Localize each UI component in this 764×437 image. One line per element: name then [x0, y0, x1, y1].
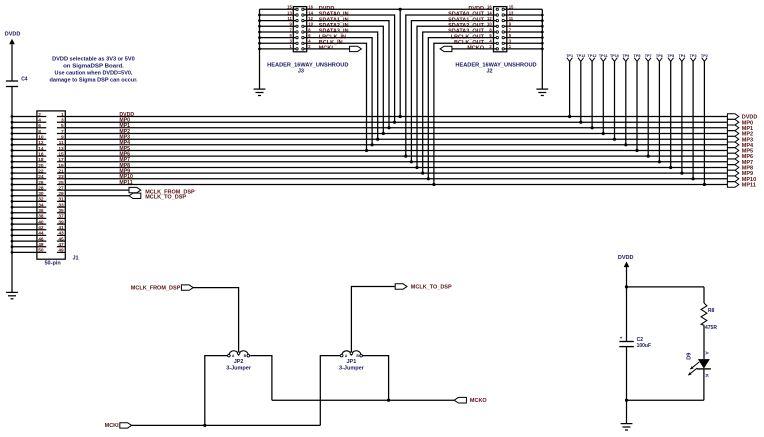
svg-text:TP11: TP11: [599, 54, 608, 58]
svg-text:TP10: TP10: [610, 54, 619, 58]
svg-text:32: 32: [38, 197, 44, 203]
svg-text:C4: C4: [21, 77, 28, 83]
svg-text:TP12: TP12: [588, 54, 597, 58]
svg-text:TP9: TP9: [622, 54, 629, 58]
svg-text:TP6: TP6: [656, 54, 663, 58]
svg-text:11: 11: [509, 16, 514, 21]
svg-text:on SigmaDSP Board.: on SigmaDSP Board.: [63, 64, 124, 70]
svg-text:4: 4: [38, 118, 41, 124]
svg-text:J1: J1: [73, 256, 79, 262]
svg-text:45: 45: [58, 236, 64, 242]
svg-text:28: 28: [38, 185, 44, 191]
svg-text:37: 37: [58, 214, 64, 220]
svg-text:12: 12: [38, 140, 44, 146]
svg-text:13: 13: [287, 10, 292, 15]
svg-text:J2: J2: [486, 68, 492, 74]
svg-text:15: 15: [509, 5, 514, 10]
svg-text:14: 14: [38, 146, 44, 152]
svg-text:TP4: TP4: [678, 54, 686, 58]
svg-text:11: 11: [287, 16, 292, 21]
svg-text:33: 33: [58, 202, 64, 208]
svg-text:MP11: MP11: [119, 180, 132, 186]
svg-text:3-Jumper: 3-Jumper: [339, 365, 365, 371]
svg-text:DVDD selectable as 3V3 or 5V0: DVDD selectable as 3V3 or 5V0: [52, 57, 135, 63]
svg-text:MCKO: MCKO: [470, 398, 488, 404]
svg-text:B: B: [244, 354, 247, 358]
svg-text:24: 24: [38, 174, 44, 180]
svg-text:25: 25: [58, 180, 64, 186]
svg-text:11: 11: [59, 140, 64, 146]
svg-text:50-pin: 50-pin: [45, 261, 62, 267]
svg-text:MP11: MP11: [742, 183, 756, 189]
svg-text:D9: D9: [687, 353, 693, 360]
svg-text:23: 23: [58, 174, 64, 180]
svg-text:7: 7: [61, 129, 64, 135]
svg-text:MCKI: MCKI: [105, 423, 120, 429]
svg-text:6: 6: [38, 123, 41, 129]
svg-text:34: 34: [38, 202, 44, 208]
svg-text:16: 16: [487, 5, 492, 10]
svg-text:50: 50: [38, 248, 44, 254]
svg-text:A: A: [704, 351, 709, 355]
svg-text:MCLK_TO_DSP: MCLK_TO_DSP: [411, 284, 452, 290]
svg-text:A: A: [232, 354, 235, 358]
svg-text:8: 8: [38, 129, 41, 135]
svg-text:47: 47: [58, 242, 64, 248]
svg-text:43: 43: [58, 231, 64, 237]
svg-text:3-Jumper: 3-Jumper: [226, 365, 252, 371]
svg-text:13: 13: [509, 10, 514, 15]
svg-text:36: 36: [38, 208, 44, 214]
svg-text:JP1: JP1: [347, 359, 357, 365]
svg-text:16: 16: [38, 151, 44, 157]
svg-text:Use caution when DVDD=5V0,: Use caution when DVDD=5V0,: [55, 71, 133, 77]
svg-text:35: 35: [58, 208, 64, 214]
svg-text:15: 15: [287, 5, 292, 10]
svg-text:K: K: [704, 374, 709, 378]
svg-text:20: 20: [38, 163, 44, 169]
svg-text:9: 9: [61, 135, 64, 141]
svg-text:39: 39: [58, 219, 64, 225]
svg-text:MCLK_TO_DSP: MCLK_TO_DSP: [145, 195, 186, 201]
svg-text:TP5: TP5: [667, 54, 674, 58]
svg-text:2: 2: [38, 112, 41, 118]
svg-text:40: 40: [38, 219, 44, 225]
svg-text:DVDD: DVDD: [618, 255, 634, 261]
svg-text:3: 3: [61, 118, 64, 124]
svg-text:A: A: [345, 354, 348, 358]
svg-text:29: 29: [58, 191, 64, 197]
svg-text:+: +: [620, 336, 623, 341]
svg-text:42: 42: [38, 225, 44, 231]
svg-text:44: 44: [38, 231, 44, 237]
svg-text:46: 46: [38, 236, 44, 242]
svg-text:38: 38: [38, 214, 44, 220]
svg-text:475R: 475R: [705, 325, 717, 331]
svg-text:19: 19: [58, 163, 64, 169]
svg-text:B: B: [356, 354, 359, 358]
svg-text:HEADER_16WAY_UNSHROUD: HEADER_16WAY_UNSHROUD: [267, 62, 348, 68]
svg-text:10: 10: [38, 135, 44, 141]
svg-text:TP7: TP7: [645, 54, 652, 58]
svg-text:21: 21: [58, 168, 64, 174]
svg-text:JP2: JP2: [234, 359, 244, 365]
svg-text:1: 1: [61, 112, 64, 118]
svg-text:49: 49: [58, 248, 64, 254]
svg-text:TP3: TP3: [690, 54, 697, 58]
svg-text:TP2: TP2: [701, 54, 708, 58]
svg-text:DVDD: DVDD: [5, 31, 21, 37]
svg-text:HEADER_16WAY_UNSHROUD: HEADER_16WAY_UNSHROUD: [455, 62, 536, 68]
svg-text:TP13: TP13: [576, 54, 585, 58]
svg-text:5: 5: [61, 123, 64, 129]
svg-text:27: 27: [58, 185, 64, 191]
svg-text:30: 30: [38, 191, 44, 197]
svg-text:100uF: 100uF: [637, 343, 651, 349]
svg-text:MCLK_FROM_DSP: MCLK_FROM_DSP: [131, 285, 181, 291]
svg-text:17: 17: [58, 157, 64, 163]
svg-text:13: 13: [58, 146, 64, 152]
svg-text:41: 41: [58, 225, 64, 231]
svg-text:R8: R8: [708, 308, 715, 314]
svg-text:damage to Sigma DSP can occur.: damage to Sigma DSP can occur.: [50, 77, 139, 83]
svg-text:15: 15: [58, 151, 64, 157]
svg-text:TP8: TP8: [634, 54, 641, 58]
svg-text:TP1: TP1: [566, 54, 573, 58]
svg-text:31: 31: [58, 197, 64, 203]
svg-text:J3: J3: [298, 68, 304, 74]
svg-text:48: 48: [38, 242, 44, 248]
svg-text:18: 18: [38, 157, 44, 163]
svg-text:22: 22: [38, 168, 44, 174]
svg-text:26: 26: [38, 180, 44, 186]
